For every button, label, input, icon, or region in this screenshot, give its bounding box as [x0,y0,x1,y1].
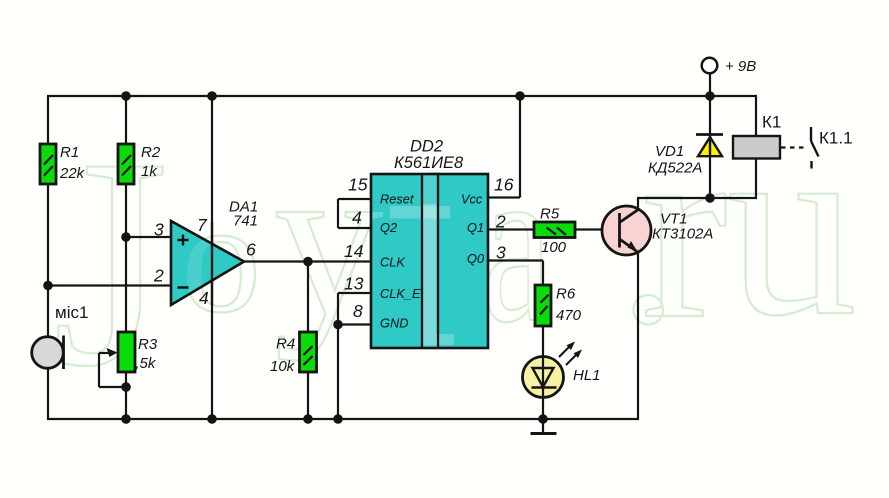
svg-text:CLK: CLK [380,255,405,270]
svg-text:Q1: Q1 [467,220,484,235]
svg-text:R2: R2 [141,144,161,161]
svg-text:R5: R5 [540,206,560,223]
svg-text:R1: R1 [60,144,79,161]
svg-text:DD2: DD2 [410,138,443,156]
svg-text:13: 13 [344,274,364,294]
svg-text:+ 9В: + 9В [725,58,756,75]
svg-text:4: 4 [199,288,209,308]
svg-text:16: 16 [494,175,514,195]
svg-text:міс1: міс1 [55,303,88,322]
svg-text:К561ИЕ8: К561ИЕ8 [394,154,464,172]
svg-text:14: 14 [344,241,364,261]
svg-text:CLK_E: CLK_E [380,286,421,301]
svg-text:470: 470 [556,307,582,324]
svg-text:6: 6 [246,240,256,260]
svg-text:К1.1: К1.1 [819,129,853,148]
svg-text:HL1: HL1 [573,367,601,384]
svg-text:7: 7 [197,215,208,235]
svg-text:КД522А: КД522А [648,160,702,177]
svg-text:2: 2 [153,266,164,286]
svg-text:3: 3 [496,243,506,263]
svg-text:Vcc: Vcc [461,192,483,207]
svg-text:R4: R4 [276,336,295,353]
svg-text:К1: К1 [762,113,781,132]
svg-text:R3: R3 [138,336,158,353]
svg-text:Reset: Reset [380,192,414,207]
svg-text:100: 100 [541,239,567,256]
svg-text:22k: 22k [59,165,86,182]
svg-text:u: u [727,82,857,370]
svg-text:1k: 1k [141,163,158,180]
svg-text:VD1: VD1 [655,143,684,160]
svg-text:8: 8 [353,301,363,321]
svg-text:15: 15 [348,175,368,195]
svg-text:3: 3 [154,220,164,240]
svg-text:4: 4 [352,208,362,228]
svg-text:Q2: Q2 [380,220,397,235]
svg-text:2: 2 [495,212,506,232]
svg-text:GND: GND [380,316,408,331]
svg-text:Q0: Q0 [467,251,485,266]
svg-text:10k: 10k [270,358,296,375]
svg-text:R6: R6 [556,286,576,303]
svg-text:КТ3102А: КТ3102А [652,226,713,243]
svg-text:741: 741 [233,213,258,230]
